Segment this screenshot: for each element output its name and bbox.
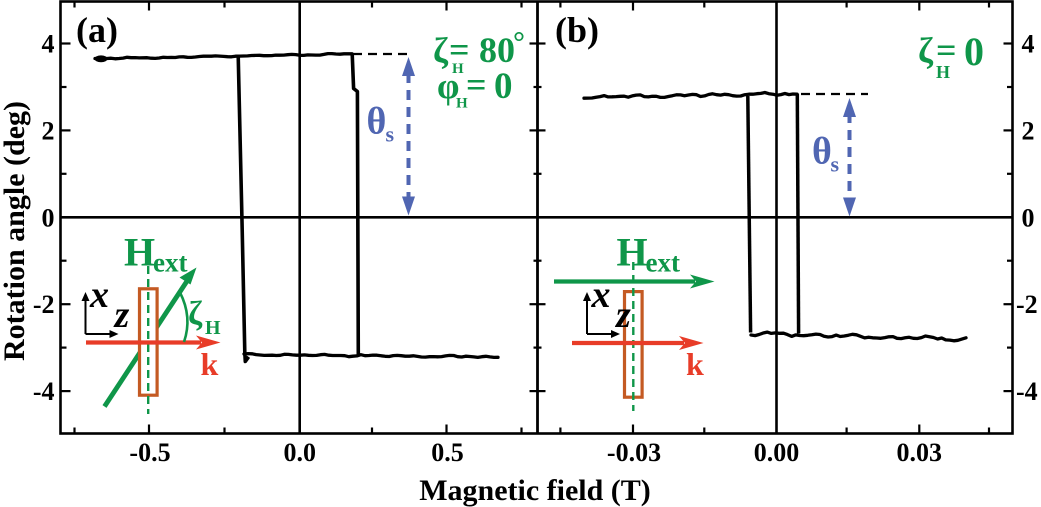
svg-text:ext: ext [646, 248, 680, 278]
green H_ext arrow (horizontal) b [554, 279, 695, 283]
hysteresis curve panel b: left transition [748, 96, 751, 333]
dashed level line panel a [353, 53, 409, 55]
svg-text:-0.03: -0.03 [607, 438, 661, 467]
plot outer frame [61, 2, 1013, 434]
hysteresis curve panel a: left (up-sweep) transition [238, 56, 248, 362]
svg-text:-4: -4 [1016, 377, 1038, 406]
svg-text:k: k [201, 346, 219, 382]
svg-text:H: H [617, 230, 648, 275]
svg-text:-4: -4 [33, 377, 55, 406]
svg-text:2: 2 [1022, 116, 1035, 145]
svg-text:s: s [386, 122, 395, 147]
svg-text:(b): (b) [555, 10, 599, 50]
zero angle line [61, 216, 1012, 219]
svg-text:-2: -2 [1016, 290, 1038, 319]
green annotation zeta_H = 0, panel b [918, 29, 984, 82]
zeta_H angle arc a [180, 293, 187, 343]
svg-text:Rotation angle (deg): Rotation angle (deg) [0, 101, 31, 361]
svg-text:ζ: ζ [188, 295, 203, 332]
svg-text:θ: θ [367, 101, 387, 143]
sample rectangle a [140, 289, 158, 395]
svg-text:-0.5: -0.5 [129, 438, 170, 467]
x tick labels panel b [607, 438, 942, 467]
svg-text:°: ° [513, 26, 525, 59]
svg-text:0.03: 0.03 [897, 438, 943, 467]
svg-text:4: 4 [1022, 30, 1035, 59]
x ticks panel a [75, 3, 522, 433]
left y tick labels [33, 30, 55, 407]
svg-text:=: = [466, 65, 487, 105]
svg-text:Magnetic field (T): Magnetic field (T) [419, 474, 651, 507]
svg-text:x: x [591, 274, 611, 316]
svg-text:(a): (a) [76, 10, 118, 50]
svg-text:z: z [614, 294, 631, 336]
green H_ext arrow (diagonal), tail part [105, 277, 191, 407]
green annotation phi_H = 0, panel a [437, 65, 513, 112]
svg-text:0: 0 [964, 29, 984, 74]
x tick labels panel a [129, 438, 463, 467]
svg-text:0: 0 [42, 203, 55, 232]
hysteresis curve panel b: top branch [584, 93, 797, 99]
svg-text:ext: ext [153, 248, 187, 278]
y ticks right axis [1004, 44, 1012, 392]
hysteresis curve panel b: right transition [797, 94, 798, 334]
svg-text:=: = [936, 30, 957, 70]
sample normal dashed line a [147, 266, 149, 414]
green annotation zeta_H = 80 deg, panel a [433, 26, 525, 77]
svg-text:z: z [113, 294, 130, 336]
y ticks left axis [62, 44, 71, 392]
hysteresis curve panel a: right (down-sweep) transition [352, 54, 358, 356]
y ticks divider [530, 44, 546, 392]
svg-text:0.0: 0.0 [283, 438, 316, 467]
svg-text:-2: -2 [33, 290, 55, 319]
zero field line panel a [298, 2, 301, 433]
red k arrow a [86, 340, 201, 344]
red k arrow b [572, 341, 684, 345]
svg-text:=: = [449, 30, 470, 70]
blue double arrow theta_s panel a [402, 57, 415, 216]
svg-text:0.5: 0.5 [431, 438, 464, 467]
svg-text:ζ: ζ [918, 30, 934, 70]
svg-text:2: 2 [42, 116, 55, 145]
svg-text:0.00: 0.00 [754, 438, 800, 467]
right y tick labels [1016, 30, 1038, 407]
svg-text:s: s [831, 152, 840, 177]
svg-text:k: k [686, 346, 704, 382]
svg-text:H: H [124, 230, 155, 275]
dashed level line panel b [801, 93, 868, 95]
x ticks panel b [560, 3, 989, 433]
svg-text:H: H [205, 317, 221, 339]
sample normal dashed line b [632, 262, 634, 411]
sample rectangle b [625, 292, 643, 398]
svg-text:ζ: ζ [433, 30, 449, 70]
svg-text:θ: θ [812, 131, 832, 173]
hysteresis curve panel b: bottom branch [751, 332, 966, 341]
blue double arrow theta_s panel b [843, 98, 856, 217]
coordinate axes b [587, 297, 614, 334]
svg-text:4: 4 [42, 30, 55, 59]
hysteresis curve panel a: bottom branch [244, 354, 498, 358]
zero field line panel b [775, 2, 778, 433]
curve a start blob [95, 55, 108, 62]
svg-text:x: x [89, 274, 109, 316]
coordinate axes a [86, 297, 113, 334]
svg-text:0: 0 [494, 66, 513, 107]
svg-text:0: 0 [1022, 203, 1035, 232]
panel divider [536, 2, 539, 434]
hysteresis curve panel a: top branch [95, 54, 352, 59]
